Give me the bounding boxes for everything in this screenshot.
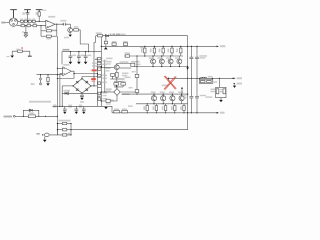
ground under Q1 [69, 32, 71, 34]
node bridge bottom [81, 93, 82, 94]
box on rail [125, 55, 129, 57]
component box K5 [98, 98, 101, 101]
resistor R1 [38, 12, 40, 16]
node x137/92 [136, 91, 137, 92]
ladder right rail [70, 124, 72, 135]
wire driver rail y56 [124, 55, 183, 57]
label collector row [131, 61, 140, 63]
stub L1 right [211, 78, 213, 80]
fuse F1 on rail [98, 35, 103, 37]
label driver aux [136, 64, 141, 66]
label J1 input [1, 22, 5, 24]
wire emitter rail y103.8 [136, 103, 188, 105]
resistor R14 above rail [112, 43, 116, 46]
terminal bias [13, 115, 15, 117]
node 74.7/R13 [47, 74, 48, 75]
wire U2 out [71, 71, 74, 78]
arrow speaker [42, 134, 44, 135]
labels RE row [141, 49, 180, 59]
node chain1/C1 [27, 21, 28, 22]
ladder left rail [56, 124, 58, 135]
test point TP1 [40, 75, 42, 78]
bridge diode D1 [76, 81, 79, 84]
wire diamond bottom [110, 95, 117, 101]
label driver row3 [106, 63, 110, 64]
node out/94.1 [187, 94, 188, 95]
capacitor C14 [195, 96, 199, 98]
label bus row b [92, 65, 98, 67]
node out 2 [62, 24, 63, 25]
node 74.7/TP [40, 74, 41, 75]
label near x137 a [129, 87, 133, 88]
stub under node X [167, 78, 169, 80]
labels bus extra [102, 68, 114, 101]
wire rail elbow [61, 52, 63, 65]
label top bus97 [96, 58, 103, 60]
label U1 [48, 16, 55, 18]
diode D6 on rail [105, 35, 108, 37]
wire down to bias [116, 77, 118, 88]
resistor R18 [114, 83, 119, 86]
resistor R16 [116, 72, 119, 77]
stub 182 [181, 88, 183, 94]
wire to Q1 [69, 24, 71, 27]
label R20 [106, 103, 111, 104]
wire bridge left loop top [62, 85, 73, 87]
label near x137 b [132, 71, 136, 72]
wire base rail y94.1 [122, 93, 188, 95]
wire emitter rail y66.5 [134, 66, 188, 68]
node dec2 [78, 51, 79, 52]
box driver aux [131, 63, 135, 66]
labels diamond left [106, 88, 112, 91]
wire +50 elbow right [187, 36, 189, 47]
wire U2 in1 [57, 67, 62, 69]
wire bias boxes upper [114, 82, 123, 83]
ladder rung 1 [57, 123, 71, 125]
tick y66.6 [97, 66, 101, 68]
label R12 [16, 49, 19, 51]
node chain2 cap tap [25, 25, 26, 26]
transistor Q11 [161, 96, 166, 101]
label protect row [29, 101, 51, 103]
wire cap column 2 [196, 46, 198, 112]
node x137/94.1 [136, 94, 137, 95]
label left of C8 [53, 105, 57, 108]
label C5 [81, 55, 85, 57]
wire Q5 aux [119, 67, 131, 69]
resistor RE5 [155, 106, 157, 111]
resistor R24 in L1 box [207, 81, 212, 83]
wire base Q5 [101, 66, 114, 68]
diode D8 [29, 109, 32, 111]
resistor R7 [27, 25, 31, 27]
resistor R5 [32, 20, 35, 22]
node bus/85.9 [93, 85, 94, 86]
resistor R19 [121, 83, 126, 86]
node bus104.8/92 [104, 91, 105, 92]
resistor RE9 [146, 106, 148, 111]
stray mark left [7, 56, 10, 58]
label C3 [60, 20, 66, 22]
wire feedback row 2 [41, 35, 57, 37]
red label 1 [92, 69, 97, 71]
ground C7 [80, 98, 83, 100]
wire +15V rail [62, 51, 101, 53]
resistor R21 on rail [114, 110, 120, 113]
resistor R15 above rail [123, 43, 127, 46]
capacitor C1 [26, 13, 30, 22]
stub R17 [112, 76, 114, 79]
label R19 [121, 81, 125, 83]
node 97.4/73 [97, 73, 98, 74]
label right of R16 [122, 73, 128, 75]
diode D5 [65, 92, 68, 95]
label C6 [88, 55, 92, 57]
wire U2 feedback [57, 78, 74, 80]
speaker terminal ellipse [45, 133, 50, 137]
node re9 [147, 103, 148, 104]
label LS- [237, 83, 242, 85]
transistor Q8 [168, 59, 173, 64]
tick top bus97 [95, 59, 100, 61]
label R21 [114, 109, 119, 111]
transistor Q5 [114, 65, 119, 70]
ground left of R12 [11, 51, 13, 55]
transistor Q13 [179, 96, 184, 101]
diamond VR1 [114, 89, 120, 96]
label speaker [36, 133, 39, 135]
node R20 bus [101, 100, 102, 101]
label R1 [36, 12, 38, 15]
wire +V rail [101, 45, 216, 47]
wire bus x101.3 [100, 36, 102, 107]
resistor R9 [46, 30, 51, 32]
resistor R6 [21, 25, 25, 27]
label F1 [96, 32, 102, 34]
red label 3 [92, 80, 96, 81]
node re0 top [144, 46, 145, 47]
node base Q5 [101, 67, 102, 68]
tick y87.3 [97, 86, 101, 88]
chassis bar symbol 2 [24, 10, 31, 13]
transistor Q7 [159, 59, 164, 64]
wire input chain 2 [17, 25, 46, 27]
bridge frame [73, 79, 91, 94]
nodes bottom rails [147, 94, 185, 114]
component box K2 [98, 75, 101, 78]
resistor RE4 [180, 48, 182, 53]
node dec1 [70, 51, 71, 52]
label R28 [68, 133, 71, 135]
label -V [220, 112, 225, 114]
node loop left [23, 116, 24, 117]
wire U2 in2 [60, 73, 63, 75]
label R15 [123, 41, 128, 43]
resistor RE8 [183, 106, 185, 111]
wire driver low row [110, 78, 124, 80]
node x137/66.5 [136, 66, 137, 67]
wire U1 output [55, 23, 70, 25]
component box K4 [98, 92, 101, 95]
inductor L1 coil [201, 77, 207, 78]
label rail right [121, 34, 126, 36]
capacitor C15 zobel [223, 89, 226, 94]
node L1 left [199, 78, 200, 79]
node out/112.8 [187, 112, 188, 113]
ground C4 [69, 62, 73, 64]
label amp [4, 116, 13, 118]
label U2 [63, 64, 69, 66]
capacitor C10 [82, 106, 86, 111]
label left of C9 [68, 105, 72, 108]
ground LS- [234, 84, 236, 85]
transistor Q10 [151, 96, 156, 101]
wire diamond right [120, 91, 137, 93]
node x137/56 [136, 55, 137, 56]
labels chain1 [20, 19, 35, 20]
wire diamond left [101, 91, 114, 93]
resistor R20 [106, 99, 110, 102]
ground C5 [77, 62, 81, 64]
wire bridge top to bus [82, 77, 97, 79]
resistor R13 [47, 75, 49, 78]
node zobel tap [219, 78, 220, 79]
labels chain2 [21, 23, 36, 24]
bridge diode D4 [86, 89, 88, 91]
labels zobel [220, 89, 223, 93]
wire Q5 emitter [116, 70, 118, 73]
node bus94/78.1 [93, 78, 94, 79]
wire bus x94 [94, 36, 95, 86]
wire bridge right to bus [91, 85, 97, 87]
label diamond [121, 93, 129, 95]
resistor R29 on x137 [135, 90, 139, 93]
resistor R17 [111, 73, 115, 76]
label above U1 [42, 10, 47, 12]
node loop right [38, 116, 39, 117]
resistor RE0 [144, 48, 146, 53]
node dec3 [85, 51, 86, 52]
label D5 [64, 90, 70, 92]
label before RE row [140, 47, 143, 48]
wire bias boxes lower [114, 85, 123, 87]
wire bus x104.8 [104, 60, 106, 92]
wire R11 to rail [78, 30, 88, 52]
label under X [162, 85, 169, 87]
chassis bar symbol 1 [10, 10, 17, 18]
capacitor C9 [74, 106, 78, 111]
inductor L1 box [199, 80, 213, 84]
node 187.6/46.4 [187, 46, 188, 47]
bridge diode D3 [76, 89, 78, 91]
wire Q5 collector [117, 64, 134, 65]
label bus row a [92, 62, 98, 64]
resistor RE6 [164, 106, 166, 111]
wire subcircuit [12, 50, 30, 52]
component box K1 [98, 62, 101, 65]
label R9 [52, 29, 56, 31]
op-amp U2 [63, 67, 72, 76]
capacitor C16 between rails [105, 37, 107, 47]
label under C7 ground [80, 101, 84, 103]
label box rail [125, 52, 130, 54]
label R14 [112, 41, 117, 43]
label TP [31, 83, 35, 85]
bridge diode D2 [86, 81, 88, 83]
node bridge right [90, 85, 91, 86]
node feedback tap [40, 25, 41, 26]
label left of C10 [79, 105, 82, 108]
nodes ladder [57, 123, 72, 136]
wire output vertical [71, 46, 188, 129]
wire output line left segment [168, 77, 187, 79]
node 101.3/66.6 [101, 66, 102, 67]
node h74.7/A [57, 74, 58, 75]
label driver row2 [106, 61, 111, 63]
tick y76.8 [97, 76, 101, 78]
wire bias line 2 [35, 115, 57, 117]
capacitor C7 under bridge [80, 93, 84, 97]
resistor R22 on rail [122, 110, 128, 113]
wire +50 rail [96, 35, 188, 37]
capacitor C13 [195, 57, 199, 59]
chassis bar symbol 3 [36, 10, 43, 12]
wire cap column 1 [190, 46, 192, 112]
label Q5 type [120, 61, 129, 63]
ground right of R12 [29, 51, 31, 56]
arrow +V [217, 46, 219, 48]
label C2 [22, 31, 24, 33]
capacitor C6 [84, 52, 88, 62]
ground arrow on h106.3 [105, 105, 107, 108]
transistor Q9 [177, 59, 182, 64]
label C4 [72, 55, 76, 57]
node out/66.5 [187, 66, 188, 67]
label Q5 [106, 58, 112, 60]
resistor R8 [33, 25, 37, 27]
wire U2 out to bus [74, 73, 97, 75]
test point TP2 [40, 83, 42, 85]
resistor R2 [20, 20, 23, 22]
transistor Q12 [170, 96, 175, 101]
ground C9 [75, 112, 78, 114]
resistor R31 on x137 [135, 74, 139, 77]
label +15V [62, 49, 69, 51]
wire bridge left loop bottom [62, 92, 97, 94]
wire speaker [43, 134, 46, 136]
wire sense vertical C [61, 86, 63, 106]
label +50VDC [110, 34, 112, 36]
wire mid vertical x137 [136, 56, 138, 94]
capacitor C3 series [64, 23, 66, 26]
label R30 [29, 112, 34, 114]
ground under C2 [24, 35, 28, 37]
node L1 right [212, 78, 213, 79]
labels bus column [102, 60, 107, 79]
arrow LS+ [234, 78, 236, 80]
resistor RE3 [171, 48, 173, 53]
capacitor C5 [77, 52, 81, 62]
nodes top row rails [152, 46, 181, 67]
transistor Q6 [151, 59, 156, 64]
power transistors bottom row [146, 94, 185, 113]
node in1 [57, 68, 58, 69]
node bridge left [72, 85, 73, 86]
wire R20 left [101, 100, 106, 102]
component box K3 [98, 82, 101, 85]
resistor R27 [62, 129, 66, 131]
resistor R11 [74, 29, 79, 31]
node chain1/R1 [39, 21, 40, 22]
tick y96.2 [97, 95, 101, 97]
node 97.4/66.6 [97, 66, 98, 67]
label LS+ [237, 77, 242, 79]
label C1 [22, 12, 24, 15]
label right of R16 b [122, 75, 127, 76]
labels caps right [183, 55, 212, 98]
ground speaker [44, 137, 46, 140]
capacitor C8 [63, 106, 67, 111]
zobel tap [218, 78, 220, 87]
zobel box [216, 87, 226, 97]
arrow -V [217, 112, 219, 114]
resistor R28 [62, 134, 66, 136]
ground C6 [84, 62, 88, 64]
resistor R4 [28, 20, 31, 22]
node U1 out [56, 24, 57, 25]
wire h106.3 [53, 106, 113, 113]
ladder rung 2 [57, 129, 71, 131]
node diamond left bus [101, 91, 102, 92]
capacitor C2 to ground [24, 26, 28, 35]
node out/78.3 [187, 78, 188, 79]
node bridge top [81, 78, 82, 79]
labels bottom row [128, 92, 183, 111]
label R22 [122, 109, 127, 111]
ground C8 [63, 112, 66, 114]
resistor R12 [18, 50, 23, 52]
resistor R25 zobel [216, 89, 219, 94]
wire feedback vertical [40, 26, 42, 37]
red mark [21, 47, 23, 49]
capacitor C11 [190, 57, 194, 59]
node bias end [57, 116, 58, 117]
arrow under rail [104, 47, 108, 50]
op-amp U1 [46, 20, 55, 28]
node A/106.3 [59, 106, 60, 107]
resistor RE2 [162, 48, 164, 53]
resistor R23 in L1 box [200, 81, 205, 83]
labels L1 [208, 76, 217, 92]
label ladder [59, 120, 71, 122]
label R18 [114, 81, 118, 83]
component box K1b [98, 68, 101, 70]
resistor R10 [46, 35, 51, 37]
node 182/88.2 [181, 87, 183, 89]
label under Q1 [64, 37, 69, 39]
power transistors top row [144, 46, 182, 66]
arrow LS- [234, 83, 236, 85]
resistor R30 [28, 115, 35, 118]
node C/106.3 [62, 106, 63, 107]
wire output line right [188, 77, 234, 79]
wire sense vertical B [59, 74, 61, 107]
node fb-left [57, 78, 58, 79]
wire U1 output column [56, 24, 58, 36]
node +50/101.3 [101, 46, 102, 47]
wire h74.7 [37, 74, 63, 76]
